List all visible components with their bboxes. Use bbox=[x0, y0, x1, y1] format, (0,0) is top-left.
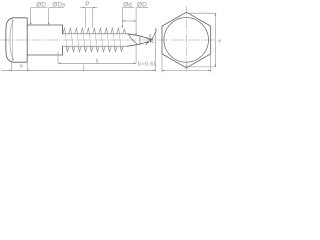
svg-text:P: P bbox=[85, 1, 89, 8]
svg-text:ØD: ØD bbox=[137, 2, 147, 9]
svg-text:Ød: Ød bbox=[123, 2, 132, 9]
svg-text:L: L bbox=[83, 65, 86, 71]
svg-text:b≈0,6L: b≈0,6L bbox=[138, 61, 158, 67]
svg-text:s: s bbox=[185, 65, 188, 71]
svg-text:ØD: ØD bbox=[36, 2, 46, 9]
svg-text:e: e bbox=[218, 38, 221, 44]
svg-text:ØDs: ØDs bbox=[52, 2, 65, 9]
svg-text:k: k bbox=[20, 64, 23, 70]
svg-text:b: b bbox=[96, 58, 99, 64]
